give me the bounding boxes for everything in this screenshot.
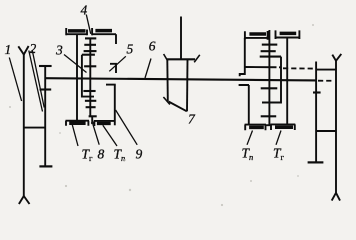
friction bar [85,100,96,102]
right wall upper stub [115,34,117,44]
friction bar [86,106,96,108]
svg-text:8: 8 [98,147,105,162]
top-left clutch bracket [244,31,268,40]
leader pair to label 2 [29,51,44,112]
end flange bar bottom of B-prime [308,161,324,163]
right end tick [194,55,200,63]
left drive shaft B [44,66,46,167]
leader to label 9 [116,110,138,145]
upper jaw (clutch 5) [110,64,116,73]
top-right clutch bracket [275,30,300,39]
svg-text:6: 6 [149,39,156,54]
right drive shaft B-prime [315,62,317,163]
center vertical [268,51,270,125]
left leg end tick [163,97,170,105]
lower jaw [106,84,116,86]
dashed shaft continuation [318,80,334,82]
small cross bar [89,115,97,117]
connector A-B [24,127,45,129]
top-right clutch bracket [92,28,116,35]
right drum wall lower [114,85,116,126]
left wall upper with foot [240,38,245,76]
svg-text:3: 3 [55,43,63,58]
leader to label 6 [145,59,151,79]
T-bar above shaft [84,65,96,67]
left half-shaft A with arrows [18,46,29,204]
upper vertical link [180,17,182,60]
stem [89,38,91,44]
T-bar [262,44,278,46]
svg-text:1: 1 [5,42,12,57]
small cross at bottom [266,124,272,126]
solid link B-prime to A-prime [316,69,336,71]
leader to label Tg left [72,125,78,146]
inner horizontal (clutch hub line) [245,66,281,68]
bearing bar mid on B [40,88,52,90]
leader to label 3 [64,55,87,73]
end flange bar bottom of B [39,165,52,167]
connector B-prime to A-prime [316,130,336,132]
center vertical [89,51,91,117]
bottom-right clutch bracket [94,121,115,126]
junction dot [91,122,94,125]
bottom-right clutch bracket [271,124,296,130]
bar 3 [84,50,97,52]
bearing tick on B-prime [313,91,321,93]
center friction column: bar 1 [85,37,96,39]
bearing bar top on B [39,65,52,67]
left end tick [164,54,168,61]
left drum wall [76,34,78,120]
diagonal link to 7 [169,102,187,112]
leader to label 4 [86,15,90,34]
dashed line to B-prime upper [283,67,316,69]
main shaft 6 [45,78,316,80]
drum C-bracket left wall and bottom [82,55,94,97]
stem to junction dot [91,116,93,123]
center column vertical top [268,30,270,45]
scan speckles [9,24,314,206]
svg-text:9: 9 [136,147,143,162]
top bar [167,58,195,60]
drum C-bracket top bar [260,56,281,58]
svg-text:2: 2 [30,41,37,56]
leader to label Tp right [247,131,253,145]
leader to label Tp left [103,125,117,146]
svg-text:5: 5 [127,42,134,57]
T-bar lower [261,115,277,117]
bottom-left clutch bracket [66,121,90,126]
right half-shaft A-prime with arrows [332,54,342,201]
drum C-bracket right wall and bottom [262,57,281,103]
leader to label 8 [93,124,99,144]
T-bar below shaft [261,87,278,89]
bar 2 [84,44,96,46]
svg-text:4: 4 [81,3,88,18]
lower jaw bar and wall [239,85,249,124]
T-bar below shaft [83,90,95,92]
leader to label 5 [109,56,126,71]
drum C-bracket top bar [82,54,95,56]
right leg [186,59,189,111]
bottom-left clutch bracket [245,125,266,131]
right drum wall (stem of top-right bracket) [286,38,288,125]
leader to label 1 [9,58,21,102]
left leg [166,59,169,101]
leader to label Tg right [276,131,281,145]
stem [89,45,91,51]
bar 2 [261,50,276,52]
stem [268,45,270,52]
top-left clutch bracket [66,28,88,35]
